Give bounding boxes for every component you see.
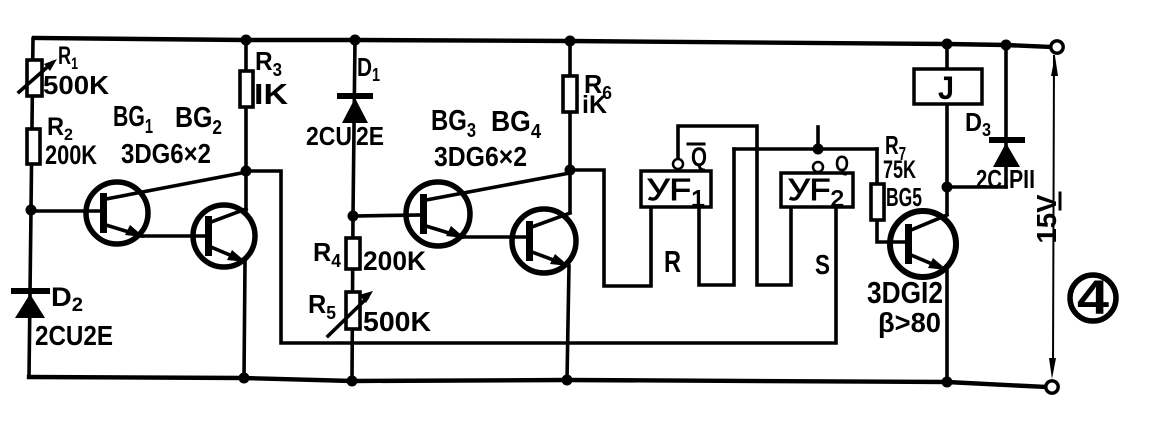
node: R6 / BG3 collector — [565, 165, 576, 176]
node: bottom rail / BG5 emitter — [942, 377, 953, 388]
svg-text:BG5: BG5 — [886, 182, 922, 212]
svg-text:3DG6×2: 3DG6×2 — [434, 141, 527, 172]
wire: R6 branch vertical — [568, 40, 572, 170]
svg-text:BG3: BG3 — [431, 105, 476, 142]
dimension arrow 15V — [1049, 56, 1058, 379]
wire: D1/R4/R5 branch vertical — [352, 39, 355, 381]
svg-text:β>80: β>80 — [878, 307, 941, 338]
svg-text:75K: 75K — [883, 156, 916, 184]
inverting bubble on YF1 Q-bar — [673, 159, 683, 169]
node: bottom rail / BG4 emitter — [562, 375, 573, 386]
terminal: bottom right — [1046, 381, 1058, 393]
transistor BG1 — [86, 172, 247, 244]
resistor R5 (adjustable) — [328, 291, 373, 336]
svg-text:2C: 2C — [976, 164, 1002, 194]
svg-text:S: S — [815, 249, 830, 280]
resistor R2 — [27, 129, 40, 164]
svg-text:D2: D2 — [51, 282, 83, 316]
svg-text:Q: Q — [835, 151, 849, 176]
wire: BG5 emitter to bottom rail — [945, 270, 949, 382]
transistor BG4 — [512, 209, 576, 273]
inverting bubble on YF2 Q — [813, 162, 823, 172]
wire: Q output line to R7 — [734, 147, 877, 151]
figure number circle 4 — [1070, 272, 1116, 325]
svg-text:PII: PII — [1009, 164, 1035, 194]
node: R3 / BG1 collector — [241, 166, 252, 177]
node: top rail / relay J — [942, 39, 953, 50]
wire: BG3 base — [353, 215, 422, 216]
relay J — [914, 69, 982, 104]
svg-text:3DG6×2: 3DG6×2 — [121, 138, 211, 169]
svg-text:500K: 500K — [363, 306, 431, 337]
svg-text:BG1: BG1 — [113, 101, 153, 138]
wire: R6 junction to YF1 R input — [570, 170, 651, 286]
wire: BG4 collector stub — [568, 170, 572, 212]
node: top rail / D3 — [1001, 40, 1012, 51]
svg-text:R4: R4 — [313, 237, 341, 271]
svg-text:200K: 200K — [45, 140, 97, 170]
svg-text:R1: R1 — [58, 42, 78, 73]
svg-text:IK: IK — [254, 79, 288, 111]
svg-text:R5: R5 — [308, 289, 336, 323]
svg-text:3DGI2: 3DGI2 — [867, 275, 943, 310]
svg-text:iK: iK — [582, 91, 607, 119]
svg-text:500K: 500K — [43, 70, 109, 100]
diode D2 — [14, 291, 47, 318]
svg-text:2CU2E: 2CU2E — [35, 320, 113, 351]
resistor R3 — [240, 71, 253, 107]
svg-text:4: 4 — [1077, 272, 1109, 325]
wire: BG1 base — [31, 209, 102, 213]
bottom rail — [29, 377, 1046, 387]
svg-text:R: R — [664, 244, 681, 279]
wire: R7 top lead — [875, 149, 879, 184]
wire: collector bus of BG1/BG2 to S input — [246, 171, 836, 343]
wire: BG2 collector stub — [244, 171, 248, 210]
transistor BG2 — [193, 205, 255, 267]
resistor R6 — [563, 76, 577, 112]
transistor BG5 — [890, 211, 956, 277]
svg-text:R3: R3 — [255, 46, 282, 80]
wire: BG4 emitter to bottom rail — [567, 266, 569, 380]
resistor R7 — [871, 184, 884, 220]
wire: Q output cross-coupling to YF1 — [699, 149, 734, 285]
node: bottom rail / BG2 emitter — [239, 373, 250, 384]
node: YF2 Q output — [813, 144, 824, 155]
wire: relay J top lead — [945, 44, 949, 69]
svg-text:2CU: 2CU — [306, 121, 352, 151]
node: R2 / D2 / BG1 base — [26, 205, 37, 216]
svg-text:2E: 2E — [356, 121, 384, 151]
svg-text:Q: Q — [691, 142, 707, 172]
wire: relay J bottom to BG5 collector — [945, 104, 949, 213]
svg-text:D3: D3 — [965, 107, 991, 140]
wire: BG3 emitter to BG4 base — [464, 235, 527, 239]
svg-text:BG4: BG4 — [491, 106, 542, 143]
diode D3 — [992, 140, 1022, 167]
node: J / D3 / BG5 collector — [942, 182, 953, 193]
wire: BG2 emitter to bottom rail — [244, 262, 245, 378]
node: bottom rail / R5 — [347, 376, 358, 387]
svg-text:D1: D1 — [357, 52, 380, 85]
svg-text:200K: 200K — [363, 246, 426, 276]
wire: BG1 emitter to BG2 base — [142, 234, 208, 238]
wire: Q-bar output cross-coupling to YF2 — [678, 126, 791, 285]
node: top rail / R6 — [565, 36, 576, 47]
wire: left branch vertical — [29, 39, 33, 377]
transistor BG3 — [406, 173, 570, 246]
terminal: top right — [1051, 41, 1063, 53]
wire: R7 bottom lead to BG5 base — [877, 220, 907, 242]
diode D1 — [340, 96, 370, 123]
wire: D3 branch vertical — [1004, 45, 1008, 187]
svg-text:15V: 15V — [1031, 194, 1062, 243]
wire: R3 branch vertical — [244, 39, 248, 171]
svg-text:BG2: BG2 — [175, 102, 222, 139]
svg-text:J: J — [938, 70, 954, 106]
wire: D3 anode to relay node — [947, 185, 1006, 189]
flip-flop YF2 — [781, 173, 853, 207]
node: D1 / R4 / BG3 base — [348, 211, 359, 222]
flip-flop YF1 — [641, 171, 711, 207]
node: top rail / R3 — [241, 35, 252, 46]
resistor R4 — [346, 238, 360, 269]
wire: trigger stub above YF2 — [816, 127, 820, 149]
node: top rail / D1 — [350, 35, 361, 46]
resistor R1 (adjustable) — [19, 59, 57, 96]
top rail — [34, 38, 1051, 47]
